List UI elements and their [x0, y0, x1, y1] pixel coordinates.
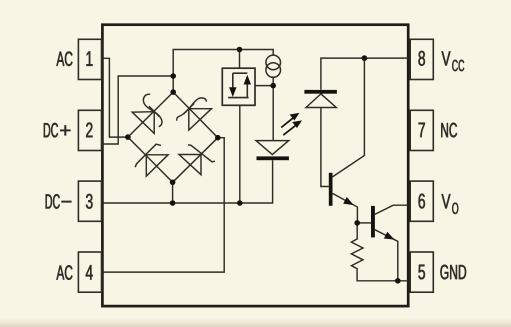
- node label minus pin3: [62, 201, 72, 202]
- junction dot top rail / regulator: [237, 47, 243, 53]
- diode D2 cathode bar: [184, 103, 195, 114]
- junction dot GND rail: [395, 278, 401, 284]
- wire photodiode anode to Q1 base: [321, 108, 329, 187]
- wire pin1 to bridge left node: [102, 58, 128, 137]
- wire Q1 collector: [333, 58, 365, 177]
- package outline: [102, 25, 408, 306]
- wire regulator right to current source: [255, 85, 273, 87]
- zener D4 cathode bar with hooks: [188, 145, 215, 162]
- current source CS1 circles: [266, 55, 281, 70]
- wire pin2 to bridge top branch: [102, 76, 173, 144]
- wire pin4 to bridge right node: [102, 138, 224, 272]
- transistor Q2 base bar: [371, 206, 375, 238]
- wire Q2 emitter: [375, 230, 398, 281]
- pin 2 number: [86, 123, 92, 138]
- diode D2 top-right triangle: [189, 109, 212, 130]
- junction dot bridge top node: [170, 89, 176, 95]
- junction dot current source / LED: [270, 83, 276, 89]
- pin 8 box: [410, 39, 433, 79]
- wire regulator top: [239, 50, 241, 69]
- wire bridge diagonal top-right: [173, 92, 218, 138]
- transistor Q1 base bar: [329, 173, 333, 206]
- junction dot Q1 emitter / Q2 base / resistor: [354, 220, 360, 226]
- photodiode D6 cathode bar: [304, 90, 337, 94]
- wire VCC rail pin8 to photodiode: [321, 58, 408, 90]
- wire bridge diagonal left-top: [128, 92, 173, 137]
- node label plus pin2: [60, 125, 70, 135]
- junction dot DC- / bridge: [170, 200, 176, 206]
- pin 2 box: [78, 110, 101, 150]
- wire bridge diagonal bottom-left: [128, 137, 173, 182]
- net label CC subscript: [452, 60, 464, 71]
- node label DC pin3: [46, 194, 60, 209]
- regulator internal bottom bar: [228, 97, 248, 99]
- LED D5 cathode bar: [257, 156, 289, 160]
- wire Q1 emitter: [333, 193, 358, 223]
- pin 1 box: [78, 39, 101, 79]
- transistor Q1 emitter arrowhead: [343, 197, 354, 205]
- pin 4 number: [86, 265, 93, 279]
- transistor Q2 emitter arrowhead: [384, 232, 395, 240]
- resistor R1: [351, 223, 363, 272]
- wire top rail: [173, 50, 273, 93]
- pin 4 box: [78, 252, 101, 292]
- wire current source bottom to LED anode: [272, 77, 274, 140]
- node label DC pin2: [44, 123, 58, 138]
- wire regulator bottom: [239, 105, 241, 203]
- zener D3 bottom-left triangle: [146, 155, 168, 176]
- zener D4 bottom-right triangle: [179, 155, 201, 175]
- net label V of VCC: [442, 51, 451, 65]
- pin 5 box: [410, 252, 433, 292]
- node label AC pin4: [56, 265, 72, 280]
- bottom page shade: [0, 317, 511, 327]
- LED emission arrow 1: [281, 113, 299, 128]
- LED D5 triangle: [256, 141, 289, 155]
- junction dot VCC rail: [362, 55, 368, 61]
- regulator left arrow shaft: [232, 73, 234, 88]
- pin 7 box: [410, 110, 433, 150]
- LED emission arrow 2: [283, 120, 302, 135]
- photodiode D6 triangle: [306, 94, 336, 108]
- pin 7 number: [419, 123, 425, 137]
- regulator left arrowhead (down): [229, 87, 236, 97]
- diode D1 cathode bar: [149, 106, 160, 117]
- pin 5 number: [418, 265, 425, 280]
- pin 6 box: [410, 181, 433, 221]
- junction dot bridge right node: [215, 135, 221, 141]
- regulator right arrowhead (up): [244, 75, 251, 85]
- pin 1 number: [87, 51, 93, 65]
- pin 3 number: [86, 194, 93, 209]
- node label AC pin1: [56, 51, 72, 66]
- pin 8 number: [418, 51, 425, 66]
- net label V of VO: [442, 194, 451, 208]
- diode D1 top-left triangle: [132, 112, 154, 134]
- wire Q2 collector to pin6: [375, 205, 409, 214]
- junction dot DC- / regulator bottom: [237, 200, 243, 206]
- wire bridge bottom drop: [172, 182, 174, 203]
- net label O subscript: [452, 203, 458, 214]
- pin 6 number: [419, 194, 425, 209]
- wire node to Q2 base: [357, 222, 371, 224]
- pin 3 box: [78, 181, 101, 221]
- regulator right arrow shaft: [246, 85, 248, 98]
- current regulator box U1: [222, 68, 255, 105]
- diode D2 S-curve: [177, 98, 207, 121]
- wire DC- rail pin3 to LED cathode: [102, 160, 273, 203]
- junction dot bridge bottom node: [170, 180, 176, 186]
- net label NC: [441, 123, 457, 138]
- junction dot pin2 branch: [170, 73, 176, 79]
- junction dot bridge left node: [125, 134, 131, 140]
- net label GND: [440, 265, 466, 280]
- zener D3 cathode bar with hooks: [135, 144, 161, 167]
- regulator internal top bar: [233, 72, 248, 74]
- wire GND rail resistor to pin5: [357, 272, 408, 281]
- wire bridge diagonal bottom-right: [173, 138, 218, 183]
- diode D1 S-curve: [143, 94, 162, 127]
